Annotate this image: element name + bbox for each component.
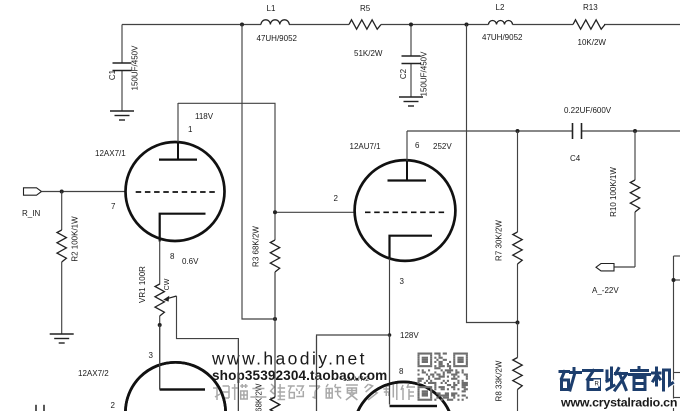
wire: 12AU7/1 plate node horizontal (to C4 and beyond) <box>407 130 572 132</box>
tube 12AX7/2 (cut off at bottom) <box>125 362 225 411</box>
grid (pin 7) of 12AX7/1 <box>136 191 215 193</box>
wire: B+ drop to R3 bottom <box>242 25 275 320</box>
svg-text:6: 6 <box>415 141 420 150</box>
input port R_IN <box>24 188 42 195</box>
plate of 12AU7/2 <box>389 335 391 405</box>
svg-text:L2: L2 <box>496 3 505 12</box>
svg-text:0.6V: 0.6V <box>182 257 199 266</box>
tube 12AU7/1 <box>355 160 456 261</box>
svg-text:R3 68K/2W: R3 68K/2W <box>252 226 261 267</box>
svg-text:VR1 100R: VR1 100R <box>138 266 147 303</box>
wire: rail between L2 and R13 <box>513 24 574 26</box>
svg-text:2: 2 <box>111 401 116 410</box>
wire: R_IN to grid of 12AX7/1 <box>42 191 126 193</box>
wire: VR1 bottom to 12AX7/2 cathode <box>159 316 161 390</box>
port A_-22V <box>596 264 614 271</box>
svg-text:www.crystalradio.cn: www.crystalradio.cn <box>560 396 677 410</box>
svg-text:10K/2W: 10K/2W <box>578 38 607 47</box>
resistor R3 <box>270 240 279 272</box>
resistor R5 <box>349 20 381 29</box>
svg-text:150UF/450V: 150UF/450V <box>420 51 429 97</box>
capacitor C4 <box>573 123 582 139</box>
node: junction dots on rail <box>240 23 244 27</box>
svg-text:C1: C1 <box>108 69 117 80</box>
svg-text:0.22UF/600V: 0.22UF/600V <box>564 106 612 115</box>
svg-text:L1: L1 <box>267 4 276 13</box>
svg-text:47UH/9052: 47UH/9052 <box>482 33 523 42</box>
crystalradio logo: kuang shi shou yin ji <box>560 368 673 391</box>
plate (pin 6) of 12AU7/1 <box>406 131 408 162</box>
wire: 12AX7/1 plate node to 12AU7/1 grid (pin 2) <box>275 211 355 213</box>
svg-text:C2: C2 <box>399 68 408 79</box>
wire: rail between R5 and L2 <box>381 24 489 26</box>
grid (pin 2) of 12AU7/1 <box>365 211 446 213</box>
svg-text:R2 100K/1W: R2 100K/1W <box>71 216 80 262</box>
redraw schematic strokes over watermark <box>238 272 389 411</box>
svg-text:3: 3 <box>149 351 154 360</box>
cathode (pin 3) of 12AU7/1 <box>390 236 433 260</box>
node: R7/R8 junction <box>516 321 520 325</box>
tube 12AU7/2 (cut off at bottom) <box>353 382 453 411</box>
wire: rail after R13 to right edge <box>604 24 680 26</box>
resistor R8 <box>517 323 519 411</box>
svg-text:www.haodiy.net: www.haodiy.net <box>211 349 367 369</box>
node: R3 bottom junction <box>273 317 277 321</box>
tube 12AX7/1 <box>126 142 225 241</box>
node: R2 tap <box>60 190 64 194</box>
capacitor C1 <box>121 25 123 112</box>
right-edge partial circuit <box>674 256 680 411</box>
svg-text:8: 8 <box>170 252 175 261</box>
svg-text:R5: R5 <box>360 4 371 13</box>
svg-text:51K/2W: 51K/2W <box>354 49 383 58</box>
wire: right bus vertical <box>673 256 675 411</box>
svg-text:12AU7/1: 12AU7/1 <box>350 142 382 151</box>
plate (pin 1) of 12AX7/1 <box>177 103 179 143</box>
svg-text:R_IN: R_IN <box>22 209 40 218</box>
capacitor C2 <box>410 25 412 98</box>
wire: B+ drop at x=466.5 down to R7/R8 junction <box>467 25 518 323</box>
node: cathode junction of 12AU7/1 <box>388 333 392 337</box>
svg-text:3: 3 <box>400 277 405 286</box>
inductor L2 <box>489 21 513 25</box>
svg-text:12AX7/1: 12AX7/1 <box>95 149 126 158</box>
svg-text:118V: 118V <box>195 112 214 121</box>
svg-text:2: 2 <box>334 194 339 203</box>
potentiometer VR1 <box>155 284 164 316</box>
resistor R10 <box>633 129 637 133</box>
cathode (pin 8) of 12AX7/1 <box>160 214 206 242</box>
resistor R6 (cut off at bottom) <box>270 397 279 411</box>
svg-text:47UH/9052: 47UH/9052 <box>257 34 298 43</box>
QR code watermark <box>418 353 468 401</box>
svg-text:C4: C4 <box>570 154 581 163</box>
ground (C1) <box>110 111 134 120</box>
svg-text:R7 30K/2W: R7 30K/2W <box>495 220 504 261</box>
wire: main B+ rail top <box>122 24 261 26</box>
svg-text:A_-22V: A_-22V <box>592 286 619 295</box>
resistor R2 <box>61 192 63 335</box>
ground (R2) <box>50 334 74 343</box>
svg-text:CW: CW <box>164 278 171 290</box>
ground (C2) <box>399 97 423 106</box>
resistor R7 <box>516 129 520 133</box>
watermark line 3: pseudo hanzi 扫描二维码了解更多制作 <box>213 384 415 400</box>
svg-text:R13: R13 <box>583 3 598 12</box>
wiper of VR1 <box>167 296 177 299</box>
wire: plate of 12AX7/1 up and right to R3 top <box>178 103 275 240</box>
svg-text:7: 7 <box>111 202 116 211</box>
svg-text:R8 33K/2W: R8 33K/2W <box>495 360 504 401</box>
svg-text:252V: 252V <box>433 142 452 151</box>
svg-text:12AX7/2: 12AX7/2 <box>78 369 109 378</box>
inductor L1 <box>261 20 289 25</box>
wire: cathode branch down-left <box>317 335 390 411</box>
svg-text:150UF/450V: 150UF/450V <box>131 45 140 91</box>
wire: rail between L1 and R5 <box>289 24 349 26</box>
svg-text:128V: 128V <box>400 331 419 340</box>
svg-text:8: 8 <box>399 367 404 376</box>
resistor R13 <box>573 20 605 29</box>
svg-text:R: R <box>595 382 600 388</box>
capacitor (bottom left, cut off) <box>36 405 44 411</box>
wire stubs to right edge <box>674 255 680 257</box>
svg-text:1: 1 <box>188 125 193 134</box>
cathode (pin 3) of 12AX7/2 <box>160 388 205 390</box>
svg-text:R10 100K/1W: R10 100K/1W <box>609 167 618 217</box>
